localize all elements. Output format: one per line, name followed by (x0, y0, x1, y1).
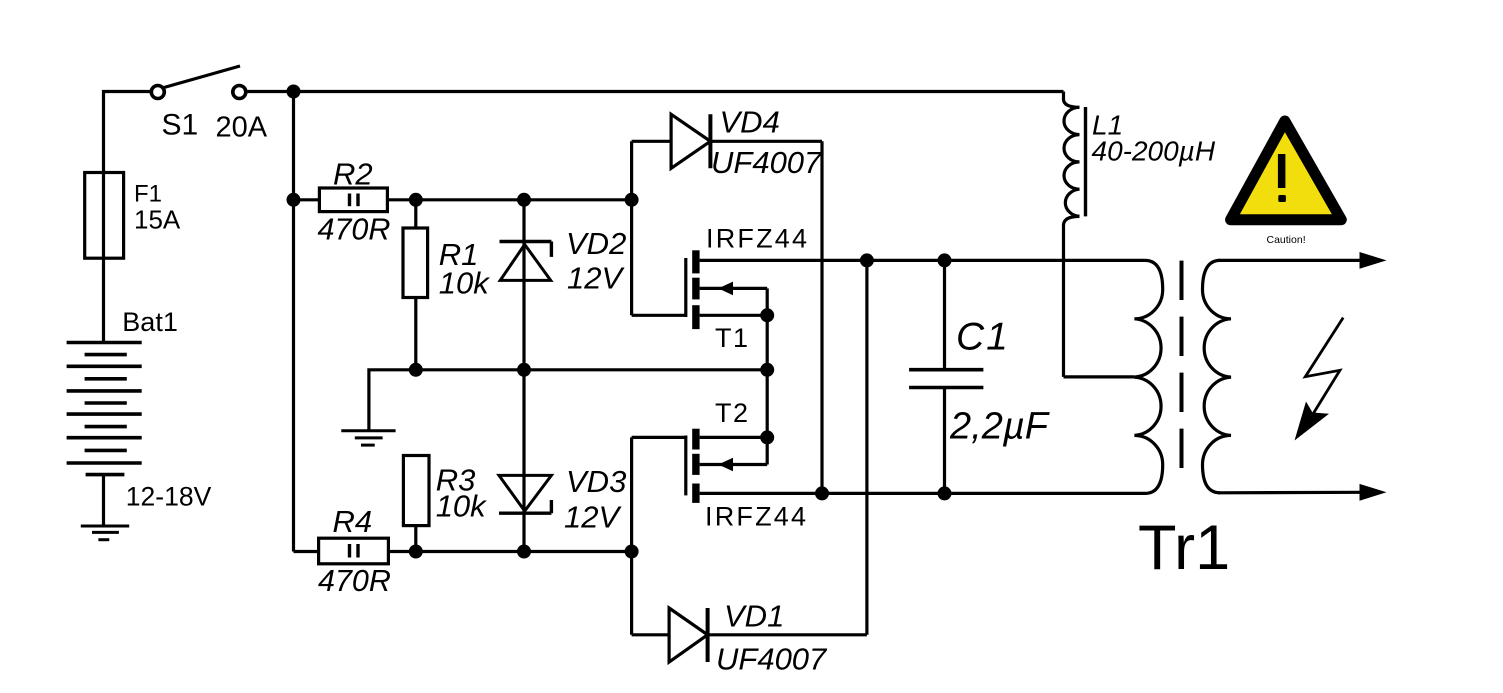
inductor L1 (1064, 92, 1086, 377)
svg-text:C1: C1 (956, 316, 1010, 359)
node R1 top (409, 193, 423, 207)
node VD1 cathode / drain rail (860, 253, 874, 267)
svg-text:Caution!: Caution! (1267, 234, 1306, 246)
arrow bottom output (1360, 484, 1387, 501)
switch S1 (151, 66, 246, 99)
svg-text:470R: 470R (318, 213, 391, 247)
svg-text:F1: F1 (134, 181, 162, 208)
wire L1 to primary centre tap (1064, 375, 1135, 378)
node C1 bottom (938, 486, 952, 500)
svg-text:Bat1: Bat1 (122, 307, 178, 337)
node R2 left (287, 193, 301, 207)
transistor T2 IRFZ44 (632, 370, 945, 503)
svg-text:VD4: VD4 (720, 105, 780, 140)
svg-text:12V: 12V (567, 261, 625, 296)
svg-text:VD2: VD2 (566, 226, 626, 261)
svg-text:S1: S1 (162, 109, 199, 142)
zener VD3 (499, 370, 551, 552)
arrow top output (1360, 252, 1387, 269)
ground centre (341, 431, 395, 445)
resistor R1 (403, 200, 428, 370)
battery Bat1 (67, 343, 142, 475)
caution sign (1231, 121, 1342, 220)
wire battery to ground (102, 475, 105, 526)
wire fuse to battery (102, 258, 105, 342)
wire T2 gate down (630, 437, 633, 634)
svg-text:T2: T2 (715, 398, 750, 428)
transformer Tr1 secondary coil (1202, 260, 1231, 492)
svg-text:2,2µF: 2,2µF (949, 406, 1050, 448)
svg-text:12-18V: 12-18V (126, 482, 212, 512)
resistor R4 (294, 538, 632, 564)
svg-text:470R: 470R (318, 564, 391, 598)
transformer Tr1 primary bottom coil (945, 377, 1163, 493)
svg-text:UF4007: UF4007 (711, 145, 823, 180)
ground battery (81, 526, 129, 540)
svg-text:12V: 12V (564, 500, 622, 535)
wire secondary top output (1218, 259, 1360, 262)
svg-text:R2: R2 (333, 157, 373, 192)
svg-text:40-200µH: 40-200µH (1092, 135, 1216, 166)
transformer core dashed lines (1180, 261, 1184, 469)
wire top rail to L1 (294, 90, 1064, 93)
capacitor C1 (909, 260, 983, 493)
svg-text:R4: R4 (333, 504, 373, 539)
node VD4 anode / R2 wire end (625, 193, 639, 207)
svg-text:15A: 15A (134, 205, 181, 235)
node VD3 bottom (517, 545, 531, 559)
svg-text:T1: T1 (715, 323, 750, 353)
node centre R1 (409, 363, 423, 377)
svg-text:IRFZ44: IRFZ44 (706, 223, 809, 253)
resistor R2 (294, 188, 416, 212)
diode VD4 (632, 114, 822, 493)
node R3 bottom (409, 545, 423, 559)
wire top-left from switch to fuse (104, 92, 151, 173)
node VD4 cathode to source rail (815, 486, 829, 500)
node junction top (287, 85, 301, 99)
lightning bolt (1305, 318, 1343, 414)
diode VD1 (632, 260, 867, 662)
svg-text:UF4007: UF4007 (716, 642, 828, 677)
svg-text:10k: 10k (436, 488, 487, 523)
node VD2 top (517, 193, 531, 207)
fuse F1 (85, 173, 124, 259)
wire centre rail (369, 370, 767, 431)
svg-text:10k: 10k (439, 266, 490, 301)
svg-text:IRFZ44: IRFZ44 (705, 502, 808, 532)
zener VD2 (500, 200, 552, 370)
transformer Tr1 primary top coil (945, 260, 1163, 377)
svg-text:20A: 20A (216, 112, 268, 144)
wire secondary bottom output (1218, 491, 1360, 495)
node T2 drain (760, 430, 774, 444)
svg-text:VD3: VD3 (566, 464, 626, 499)
node centre T1/T2 (760, 363, 774, 377)
wire switch to junction (246, 90, 300, 93)
resistor R3 (403, 456, 429, 552)
wire left vertical down (292, 92, 295, 552)
svg-text:Tr1: Tr1 (1138, 513, 1230, 583)
transistor T1 IRFZ44 (632, 250, 945, 369)
wire R2 to VD4 node (416, 198, 632, 201)
svg-text:VD1: VD1 (724, 599, 784, 634)
node T1 source (760, 308, 774, 322)
node T2 gate / VD1 anode (625, 545, 639, 559)
node centre VD2/VD3 (517, 363, 531, 377)
node C1 top (938, 253, 952, 267)
